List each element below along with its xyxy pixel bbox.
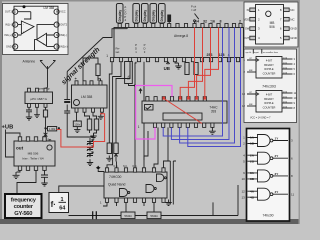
Atmega bottom pin [119, 58, 122, 62]
antenna [40, 61, 56, 88]
wire signal-strength step to Atmega pin [67, 28, 127, 72]
74hc393 datasheet box [242, 49, 297, 123]
Atmega top pin [152, 24, 155, 28]
svg-text:hier : Teiler / 64: hier : Teiler / 64 [22, 157, 43, 161]
74HC393 bottom pin [162, 123, 165, 127]
nand U-74HC00 body [104, 172, 167, 198]
74HC00 bottom pin [152, 198, 155, 202]
svg-text:IN2(-): IN2(-) [60, 33, 67, 37]
NAND gate 1 [258, 135, 271, 147]
74HC393 top pin [187, 97, 190, 101]
resistor 560b [147, 212, 161, 219]
LM358 top pin [90, 81, 93, 85]
svg-text:IN2(+): IN2(+) [60, 45, 67, 49]
blue wire 4 [188, 28, 241, 147]
counter 2 output Q3 pin 8 [282, 107, 293, 109]
ground under resistors [90, 133, 96, 139]
MB506 bottom pin [26, 166, 29, 170]
LM358 bottom pin [92, 108, 95, 112]
Atmega bottom pin [191, 58, 194, 62]
small component on out wire [43, 110, 47, 117]
svg-text:no smaller than: no smaller than [263, 51, 279, 54]
74HC393 top pin [154, 97, 157, 101]
svg-text:set: set [116, 50, 120, 54]
NAND gate 3 [258, 170, 271, 182]
ground under R-e [106, 156, 112, 162]
74HC393 bottom pin [203, 123, 206, 127]
display module 3 [142, 4, 149, 24]
74HC00 bottom pin [124, 198, 127, 202]
Atmega bottom pin [128, 58, 131, 62]
svg-text:VCC: VCC [60, 10, 66, 14]
connector ticks on bus [93, 211, 97, 219]
red wire 128 [205, 28, 219, 97]
supply mark [139, 89, 142, 94]
counter 2 MR pin 12 [247, 105, 256, 107]
svg-text:input: input [254, 51, 259, 54]
blue wire 2 [180, 28, 235, 144]
resistor R-b below Atmega [194, 63, 198, 75]
LM358 top pin [99, 81, 102, 85]
svg-text:OUT: OUT [244, 36, 250, 40]
svg-text:100n: 100n [74, 122, 80, 126]
Atmega top pin [176, 24, 179, 28]
74HC393 top pin [195, 97, 198, 101]
trimmer cap [87, 140, 93, 146]
scan border left [0, 0, 2, 224]
74HC00 top pin [115, 168, 118, 172]
counter 1 CP pin 1 [247, 59, 259, 62]
Atmega top pin [239, 24, 242, 28]
inner block long [163, 113, 202, 120]
svg-text:64: 64 [195, 19, 199, 23]
svg-text:IN: IN [247, 8, 250, 12]
red wire from LM358 to divider input [57, 114, 105, 147]
svg-text:GY-560: GY-560 [14, 211, 32, 217]
pin in [43, 137, 46, 141]
74hc00 pinout datasheet box [241, 129, 294, 222]
svg-text:IN1(+): IN1(+) [5, 33, 12, 37]
svg-text:506: 506 [269, 25, 275, 29]
pin 6 [284, 27, 290, 31]
svg-text:LM 358: LM 358 [81, 95, 92, 99]
Atmega bottom pin [182, 58, 185, 62]
svg-text:RIPPLE: RIPPLE [264, 101, 273, 105]
pin 3 [13, 32, 18, 37]
svg-text:4-BIT: 4-BIT [266, 93, 273, 97]
gate symbol 1 [120, 189, 128, 197]
ground under pin4 [101, 112, 102, 113]
+UB supply arrow [166, 62, 169, 65]
wire resistor top feed [83, 58, 101, 81]
ground at counter [211, 126, 213, 129]
preamp bottom pin [28, 104, 31, 108]
MB506 top pin [26, 137, 29, 141]
74HC00 top pin [142, 168, 145, 172]
capacitor C top (black) [167, 15, 171, 23]
svg-text:-: - [43, 34, 44, 38]
counter U-74HC393 body [142, 101, 227, 123]
blue wire 8 [171, 28, 229, 140]
red pin marks [179, 97, 182, 100]
74HC00 bottom pin [142, 198, 145, 202]
svg-text:COUNTER: COUNTER [263, 71, 276, 75]
svg-text:+UB: +UB [2, 124, 14, 130]
preamp top pin [44, 88, 47, 92]
ground below Atmega [175, 62, 179, 63]
ground right of 74HC00 [165, 200, 171, 206]
74HC393 bottom pin [170, 123, 173, 127]
Atmega bottom pin [209, 58, 212, 62]
74HC00 top pin [162, 168, 165, 172]
NAND gate 2 [258, 152, 271, 164]
supply arrow under R-f [114, 154, 117, 162]
LM358 pinout datasheet box [3, 4, 69, 55]
svg-text:frequency: frequency [11, 198, 37, 204]
scan border bottom bar [0, 219, 300, 224]
MB506 top pin [34, 137, 37, 141]
Atmega top pin [232, 24, 235, 28]
svg-text:74hc393: 74hc393 [262, 85, 276, 89]
74HC393 top pin [146, 97, 149, 101]
svg-text:16: 16 [211, 19, 215, 23]
svg-text:Display: Display [160, 10, 164, 22]
orientation circle [266, 11, 271, 16]
wire MB506 out to counter box [17, 170, 36, 193]
Atmega top pin [209, 24, 212, 28]
svg-text:Atmega 8: Atmega 8 [174, 34, 188, 38]
Atmega top pin [126, 24, 129, 28]
svg-text:LM 358: LM 358 [44, 6, 55, 10]
microcontroller U-Atmega8 body [114, 28, 244, 58]
svg-text:COUNTER: COUNTER [263, 105, 276, 109]
Atmega top pin [118, 24, 121, 28]
wire f-box to bottom bus [69, 215, 122, 217]
svg-text:+: + [43, 42, 45, 46]
display stub wire [135, 22, 137, 25]
inner block small [145, 105, 154, 111]
blue wire 16 [163, 28, 222, 137]
svg-text:CP: CP [249, 58, 253, 60]
74HC393 bottom pin [186, 123, 189, 127]
red wire 256 [197, 28, 211, 97]
Atmega top pin [217, 24, 220, 28]
svg-text:1.00k: 1.00k [49, 127, 56, 131]
svg-text:4-BIT: 4-BIT [266, 59, 273, 63]
LM358 bottom pin [75, 108, 78, 112]
counter 1 MR pin 2 [247, 71, 256, 73]
scan border top [0, 0, 300, 2]
wire preamp-out to resistor [46, 128, 48, 130]
trimmer box [125, 62, 133, 84]
capacitor under MB506 [41, 170, 48, 180]
wire antenna to preamp [46, 87, 48, 90]
resistor R-c [87, 119, 91, 130]
svg-text:GND: GND [290, 27, 298, 31]
divider IC MB506 [14, 141, 55, 166]
junction node dot [134, 84, 136, 86]
display stub wire [152, 22, 154, 25]
wire preamp mid pin down [36, 107, 38, 112]
pin 6 [54, 32, 59, 37]
pin 2 [13, 22, 18, 27]
wires 393 to nand [144, 127, 168, 167]
74HC00 top pin [105, 168, 108, 172]
frequency counter GY-560 box [5, 194, 42, 218]
wire pin144 down to 74HC00 [143, 62, 145, 168]
Atmega bottom pin [236, 58, 239, 62]
svg-text:74hc00: 74hc00 [262, 214, 273, 218]
IC body U-MB506 [256, 5, 284, 45]
red wire diagonal across counter [164, 99, 202, 124]
svg-text:1: 1 [106, 54, 108, 58]
preamp bottom pin [36, 104, 39, 108]
Atmega bottom pin [200, 58, 203, 62]
resistor R-f above 74HC00 [114, 143, 118, 154]
Atmega bottom pin [173, 58, 176, 62]
svg-text:Display: Display [143, 10, 147, 22]
pin 7 [54, 22, 59, 27]
pin 5 [54, 44, 59, 49]
red wire 32 [188, 28, 202, 97]
resistor 560a [121, 212, 135, 219]
74HC393 bottom pin [194, 123, 197, 127]
counter 2 CP pin 13 [247, 93, 259, 96]
wire Atmega pin121 down [107, 62, 121, 168]
wire preamp out down to MB506 in [45, 107, 47, 137]
svg-text:IN1(-): IN1(-) [5, 23, 12, 27]
wire vertical to detector [67, 72, 93, 138]
svg-text:560Ω: 560Ω [124, 214, 132, 218]
counter 1 output Q0 pin 3 [282, 58, 293, 60]
LM358 bottom pin [83, 108, 86, 112]
trimmer cap [87, 152, 93, 158]
red wire 64 [180, 28, 194, 97]
svg-text:393: 393 [211, 110, 217, 114]
preamp top pin [28, 88, 31, 92]
capacitor on vertical b [64, 111, 70, 115]
74HC393 bottom pin [211, 123, 214, 127]
MB506 pinout datasheet box [244, 2, 298, 47]
svg-text:560Ω: 560Ω [150, 214, 158, 218]
svg-text:12: 12 [241, 189, 245, 193]
magenta wire to counter clock [135, 86, 172, 97]
svg-text:GND: GND [290, 36, 298, 40]
wire nand pins to 560 resistors [126, 202, 154, 212]
pin 2 [250, 17, 256, 21]
74HC00 top pin [152, 168, 155, 172]
pin 8 [54, 9, 59, 14]
Atmega bottom pin [218, 58, 221, 62]
counter 2 output Q0 pin 11 [282, 92, 293, 94]
MB506 bottom pin [43, 166, 46, 170]
display stub wire [144, 22, 146, 25]
LM358 top pin [83, 81, 86, 85]
svg-text:74HC00: 74HC00 [109, 175, 122, 179]
Atmega top pin [225, 24, 228, 28]
resistor R-a below Atmega [185, 63, 189, 75]
svg-text:13: 13 [241, 195, 245, 199]
svg-text:BINARY: BINARY [264, 97, 274, 101]
svg-text:= off: = off [191, 8, 196, 12]
svg-text:VDD: VDD [244, 17, 250, 21]
counter 1 body [256, 57, 282, 79]
MB506 bottom pin [18, 166, 21, 170]
svg-text:256: 256 [207, 53, 213, 57]
pin1 orientation dot [23, 5, 26, 8]
svg-text:P ch: P ch [191, 5, 197, 9]
svg-text:OUT1: OUT1 [5, 10, 12, 14]
LM358 top pin [75, 81, 78, 85]
pin 7 [284, 17, 290, 21]
svg-text:11: 11 [291, 192, 294, 196]
svg-text:OUT2: OUT2 [60, 23, 67, 27]
Atmega top pin [184, 24, 187, 28]
Atmega top pin [193, 24, 196, 28]
pin 1 [250, 8, 256, 12]
resistor R-top [96, 64, 100, 76]
pin 1 [13, 9, 18, 14]
74HC393 top pin [162, 97, 165, 101]
svg-text:BINARY: BINARY [264, 63, 274, 67]
junction dots at 1.00k [44, 127, 46, 129]
74HC393 top pin [179, 97, 182, 101]
gate symbol 3 [157, 174, 164, 182]
pin 4 [250, 36, 256, 40]
counter 2 output Q1 pin 10 [282, 97, 293, 99]
svg-text:Display: Display [152, 10, 156, 22]
display module 4 [150, 4, 157, 24]
op-amp B wires [35, 25, 55, 51]
capacitor under preamp pin [26, 107, 32, 114]
trimmer cap [87, 146, 93, 152]
display stub wire [161, 22, 163, 25]
wire pair right of 74HC00 [167, 161, 176, 205]
wire Atmega pin130 down [116, 62, 130, 143]
74HC393 top pin [203, 97, 206, 101]
svg-text:N.C.: N.C. [133, 165, 138, 168]
pin 4 [13, 44, 18, 49]
svg-text:10: 10 [241, 177, 245, 181]
IC body U-LM358 [14, 6, 58, 50]
MB506 top pin [43, 137, 46, 141]
Atmega top pin [160, 24, 163, 28]
svg-text:MR: MR [249, 104, 253, 106]
svg-text:UB: UB [164, 66, 170, 71]
MB506 bottom pin [34, 166, 37, 170]
svg-text:up clk: up clk [246, 52, 253, 54]
svg-text:1: 1 [138, 125, 140, 129]
LM358 bottom pin [101, 108, 104, 112]
op-amp A triangle [21, 21, 34, 34]
pin 3 [250, 27, 256, 31]
svg-text:GND: GND [6, 45, 12, 49]
ground under MB506 pin [17, 170, 21, 172]
svg-text:SW: SW [245, 27, 250, 31]
svg-text:N.C.: N.C. [114, 165, 119, 168]
svg-text:2: 2 [239, 19, 241, 23]
counter 1 output Q1 pin 4 [282, 63, 293, 65]
svg-text:+: + [23, 30, 25, 34]
counter 1 output Q2 pin 5 [282, 68, 293, 70]
74HC393 top pin [170, 97, 173, 101]
pin 8 [284, 8, 290, 12]
magenta wire to counter clock 2 [136, 86, 155, 140]
preamp top pin [36, 88, 39, 92]
NAND gate 4 [258, 188, 271, 200]
pin 5 [284, 36, 290, 40]
wire R-f to 74HC00 pin [116, 162, 118, 168]
display module 1 [116, 4, 123, 24]
supply mark star at 74HC00 pin1 [96, 166, 101, 170]
MB506 top pin [18, 137, 21, 141]
display module 5 [159, 4, 166, 24]
svg-text:8: 8 [220, 19, 222, 23]
svg-text:RIPPLE: RIPPLE [264, 67, 273, 71]
preamp IC uPC 1687 G [25, 92, 53, 104]
svg-text:32: 32 [203, 19, 207, 23]
crossing mark on in wire [44, 133, 48, 137]
f/64 output box [49, 193, 69, 213]
svg-text:µPC 1687 G: µPC 1687 G [30, 97, 47, 101]
svg-text:out: out [16, 146, 24, 151]
svg-text:-: - [23, 22, 24, 26]
counter 2 body [256, 91, 282, 113]
resistor 1.00k [48, 127, 57, 131]
wire Atmega pin112 down [109, 62, 112, 143]
bottom bus wires [103, 185, 238, 216]
Atmega bottom pin [155, 58, 158, 62]
gate symbol 2 [146, 185, 154, 193]
orientation circle [47, 145, 52, 150]
preamp bottom pin [44, 104, 47, 108]
svg-text:MR: MR [249, 70, 253, 72]
wire trimmer to junction [129, 62, 137, 86]
svg-text:counter: counter [14, 204, 34, 210]
Atmega bottom pin [137, 58, 140, 62]
svg-text:128: 128 [219, 53, 225, 57]
svg-text:64: 64 [59, 206, 66, 212]
svg-text:MB 506: MB 506 [28, 152, 39, 156]
svg-text:Display: Display [118, 10, 122, 22]
Atmega top pin [168, 24, 171, 28]
svg-text:VCC = 14 GND = 7: VCC = 14 GND = 7 [250, 117, 271, 120]
74HC00 bottom pin [105, 198, 108, 202]
opamp U-LM358 body [72, 85, 108, 108]
74HC393 bottom pin [153, 123, 156, 127]
wire +UB down [6, 130, 21, 158]
scan border right [299, 0, 301, 224]
resistor R-d [94, 119, 98, 130]
Atmega top pin [135, 24, 138, 28]
svg-text:Quad Nand: Quad Nand [108, 183, 125, 187]
display module 2 [133, 4, 140, 24]
74HC00 top pin [124, 168, 127, 172]
wire junction down to 74HC00 [134, 86, 136, 168]
trimmer cap chain [89, 138, 91, 141]
74HC393 bottom pin [178, 123, 181, 127]
counter 1 output Q3 pin 6 [282, 73, 293, 75]
74HC00 bottom pin [115, 198, 118, 202]
svg-text:N.C.: N.C. [123, 165, 128, 168]
Atmega bottom pin [110, 58, 113, 62]
Atmega bottom pin [146, 58, 149, 62]
capacitor on vertical a [64, 100, 70, 103]
capacitor 100n box [73, 121, 81, 127]
74HC00 top pin [133, 168, 136, 172]
op-amp B triangle [37, 33, 47, 46]
74HC00 bottom pin [133, 198, 136, 202]
